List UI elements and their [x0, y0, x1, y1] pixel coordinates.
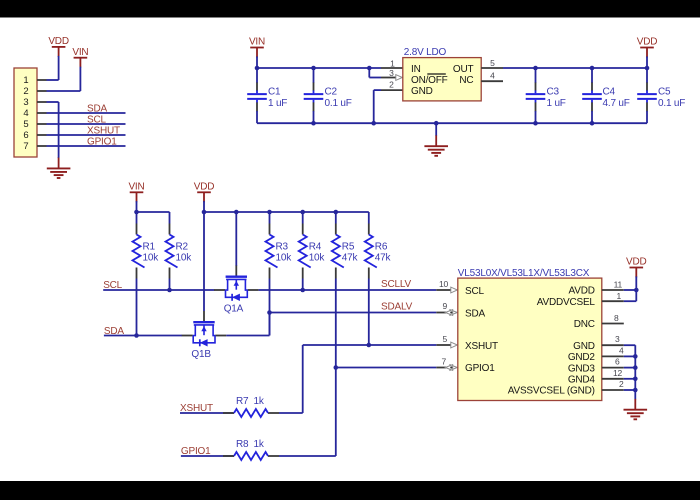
svg-text:2: 2 [23, 86, 28, 97]
svg-text:Q1A: Q1A [224, 304, 244, 315]
svg-text:8: 8 [614, 313, 619, 323]
svg-text:6: 6 [23, 130, 28, 141]
svg-text:GPIO1: GPIO1 [87, 136, 117, 147]
svg-text:R5: R5 [342, 242, 355, 253]
svg-text:Q1B: Q1B [191, 349, 211, 360]
svg-text:GND4: GND4 [568, 375, 596, 386]
svg-text:6: 6 [615, 357, 620, 367]
svg-text:SCLLV: SCLLV [381, 279, 411, 290]
svg-text:10k: 10k [276, 253, 293, 264]
svg-text:7: 7 [23, 141, 28, 152]
svg-text:3: 3 [389, 68, 394, 78]
svg-text:10: 10 [439, 279, 449, 289]
svg-text:5: 5 [23, 119, 28, 130]
svg-text:1: 1 [390, 58, 395, 68]
svg-text:C5: C5 [658, 87, 671, 98]
svg-text:R7 1k: R7 1k [236, 396, 265, 407]
svg-text:7: 7 [441, 356, 446, 366]
svg-text:9: 9 [442, 301, 447, 311]
svg-text:SCL: SCL [87, 114, 106, 125]
svg-text:1 uF: 1 uF [547, 98, 566, 109]
svg-text:10k: 10k [176, 253, 193, 264]
svg-text:R2: R2 [176, 242, 189, 253]
svg-text:10k: 10k [143, 253, 160, 264]
svg-text:VDD: VDD [626, 257, 647, 268]
svg-text:VL53L0X/VL53L1X/VL53L3CX: VL53L0X/VL53L1X/VL53L3CX [458, 268, 590, 279]
svg-text:5: 5 [442, 334, 447, 344]
svg-text:C2: C2 [325, 87, 338, 98]
svg-text:1: 1 [616, 291, 621, 301]
svg-text:SDA: SDA [465, 308, 485, 319]
svg-text:AVDDVCSEL: AVDDVCSEL [537, 297, 596, 308]
svg-text:C4: C4 [603, 87, 616, 98]
svg-text:AVDD: AVDD [569, 286, 595, 297]
svg-text:4: 4 [619, 346, 624, 356]
svg-text:3: 3 [23, 97, 28, 108]
svg-text:XSHUT: XSHUT [465, 341, 498, 352]
svg-text:1: 1 [23, 75, 28, 86]
svg-text:4: 4 [490, 70, 495, 80]
svg-text:R6: R6 [375, 242, 388, 253]
svg-text:AVSSVCSEL (GND): AVSSVCSEL (GND) [508, 386, 595, 397]
svg-text:5: 5 [490, 58, 495, 68]
svg-text:SCL: SCL [465, 286, 484, 297]
svg-text:1 uF: 1 uF [268, 98, 287, 109]
svg-text:10k: 10k [309, 253, 326, 264]
svg-text:VDD: VDD [194, 181, 215, 192]
svg-text:R4: R4 [309, 242, 322, 253]
svg-text:SDALV: SDALV [381, 302, 413, 313]
svg-text:4: 4 [23, 108, 28, 119]
svg-text:0.1 uF: 0.1 uF [325, 98, 352, 109]
svg-text:4.7 uF: 4.7 uF [603, 98, 630, 109]
svg-text:GND3: GND3 [568, 363, 596, 374]
svg-text:SDA: SDA [87, 103, 107, 114]
svg-text:C1: C1 [268, 87, 281, 98]
svg-text:VIN: VIN [128, 181, 144, 192]
svg-text:11: 11 [614, 279, 623, 289]
svg-text:3: 3 [615, 334, 620, 344]
svg-text:NC: NC [459, 75, 473, 86]
svg-text:C3: C3 [547, 87, 560, 98]
svg-text:GND: GND [573, 341, 595, 352]
svg-text:R1: R1 [143, 242, 156, 253]
svg-text:GND: GND [411, 86, 433, 97]
svg-text:2.8V LDO: 2.8V LDO [404, 47, 447, 58]
svg-text:47k: 47k [375, 253, 392, 264]
svg-text:VDD: VDD [637, 37, 658, 48]
svg-text:VIN: VIN [249, 37, 265, 48]
svg-text:47k: 47k [342, 253, 359, 264]
svg-text:ON/OFF: ON/OFF [411, 75, 448, 86]
svg-text:IN: IN [411, 64, 421, 75]
svg-text:OUT: OUT [453, 64, 474, 75]
svg-text:GND2: GND2 [568, 352, 596, 363]
svg-text:R8 1k: R8 1k [236, 439, 265, 450]
svg-text:VDD: VDD [48, 36, 69, 47]
svg-text:GPIO1: GPIO1 [465, 363, 495, 374]
svg-text:VIN: VIN [72, 47, 88, 58]
svg-text:DNC: DNC [574, 319, 595, 330]
svg-text:2: 2 [389, 79, 394, 89]
svg-text:12: 12 [613, 368, 623, 378]
svg-text:R3: R3 [276, 242, 289, 253]
svg-text:2: 2 [619, 379, 624, 389]
svg-text:XSHUT: XSHUT [87, 125, 120, 136]
svg-text:0.1 uF: 0.1 uF [658, 98, 685, 109]
